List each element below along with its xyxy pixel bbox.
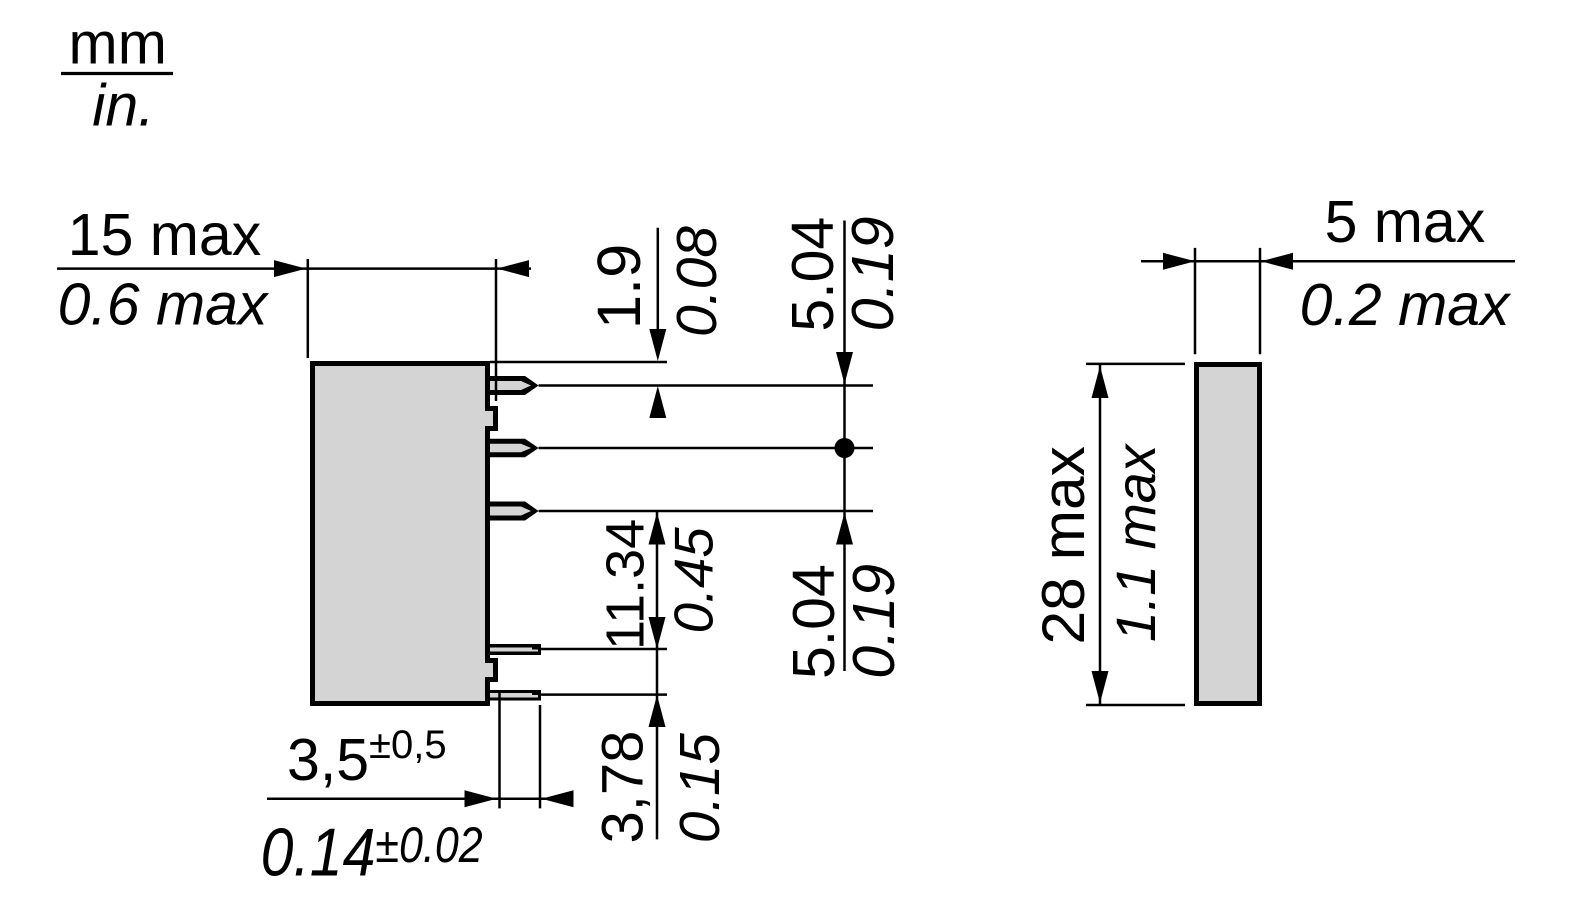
- extension line left (body left edge): [307, 259, 310, 358]
- arrow right of 15 max: [497, 260, 529, 277]
- svg-text:28 max: 28 max: [1029, 446, 1097, 644]
- dim line 28 max: [1099, 364, 1102, 705]
- arrow down at plate bottom: [1092, 671, 1109, 703]
- svg-text:in.: in.: [92, 73, 154, 139]
- arrow down to pin 4 line: [649, 617, 666, 649]
- svg-text:0.19: 0.19: [841, 564, 907, 679]
- arrow right-pointing at standoff face: [465, 790, 497, 807]
- svg-text:11.34: 11.34: [596, 519, 656, 650]
- svg-text:1.1 max: 1.1 max: [1105, 442, 1167, 642]
- front view plate: [1197, 365, 1260, 704]
- arrow down to pin 1 line: [836, 352, 853, 384]
- svg-text:0.15: 0.15: [668, 733, 731, 844]
- arrow up to pin 3 line: [836, 513, 853, 545]
- extension line right (body right edge, crosses pin 1): [495, 259, 498, 401]
- svg-text:0.2 max: 0.2 max: [1300, 272, 1512, 338]
- arrow up to pin 5 line: [649, 695, 666, 727]
- svg-text:5.04: 5.04: [780, 217, 846, 332]
- extension line pin tip: [539, 705, 542, 808]
- pin 1 (faston tab): [485, 376, 539, 395]
- arrow up at plate top: [1092, 366, 1109, 398]
- pin 1 centerline: [539, 384, 873, 387]
- extension line standoff face (crosses pin 5): [498, 690, 501, 808]
- pin 4 centerline: [541, 648, 667, 651]
- arrow left-pointing at plate right: [1261, 253, 1293, 270]
- svg-text:3,78: 3,78: [590, 731, 655, 844]
- svg-text:0.08: 0.08: [665, 226, 729, 337]
- svg-text:5 max: 5 max: [1325, 189, 1486, 255]
- pin 5 (pcb pin): [485, 690, 541, 701]
- svg-text:15 max: 15 max: [68, 202, 261, 268]
- svg-text:0.6 max: 0.6 max: [58, 272, 270, 338]
- dimension 5.04 / 0.19 upper leader: [843, 221, 846, 672]
- dimension 11.34 / 0.45 and 3,78 / 0.15 leader: [656, 511, 659, 839]
- svg-text:5.04: 5.04: [781, 564, 847, 679]
- svg-text:0.19: 0.19: [840, 216, 906, 331]
- extension line plate right: [1259, 248, 1262, 354]
- svg-text:1.9: 1.9: [585, 244, 654, 330]
- dim line 3,5: [267, 797, 571, 800]
- body outline (side view with standoff bumps): [313, 364, 496, 704]
- junction dot on pin 2 line: [835, 438, 855, 458]
- pin 3 centerline: [539, 510, 873, 513]
- pin 2 (faston tab): [485, 439, 539, 458]
- extension line plate left: [1194, 248, 1197, 354]
- pin 2 centerline: [539, 447, 873, 450]
- arrow left of 15 max: [274, 260, 306, 277]
- arrow down to body top line: [649, 329, 666, 361]
- units fraction bar: [61, 72, 173, 75]
- dim line 5 max: [1141, 260, 1515, 263]
- pin 5 centerline: [541, 693, 667, 696]
- extension line plate bottom: [1086, 704, 1185, 707]
- arrow up to pin 3 line: [649, 513, 666, 545]
- dimension 1.9 / 0.08 leader: [657, 228, 660, 355]
- arrow right-pointing at plate left: [1163, 253, 1195, 270]
- arrow up to pin 1 line: [649, 386, 666, 418]
- svg-text:0.45: 0.45: [664, 527, 725, 634]
- extension line body top (for 1.9 dim): [490, 361, 667, 364]
- pin 4 (pcb pin): [485, 644, 541, 655]
- arrow left-pointing at pin tip: [542, 790, 574, 807]
- dim line 15 max: [57, 267, 531, 270]
- extension line plate top: [1086, 363, 1185, 366]
- svg-text:mm: mm: [69, 11, 167, 77]
- pin 3 (faston tab): [485, 502, 539, 521]
